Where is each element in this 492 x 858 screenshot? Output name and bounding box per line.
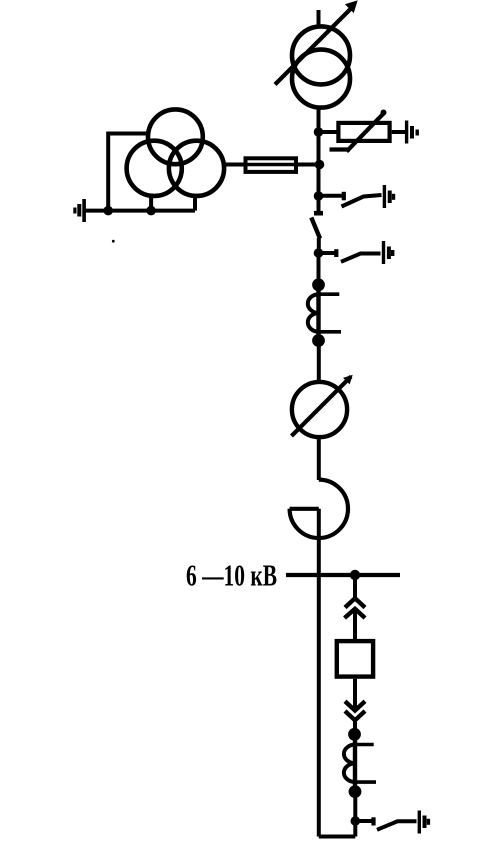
wire: reactor centre down through bus to bottom corner [317,509,321,837]
wire: disconnector to node D [317,238,321,253]
transformer T1 (two-winding, with regulation arrow) [275,2,357,108]
ground (left, transformer neutral) [73,199,86,222]
wire: L1 to breaker Q1 [317,341,321,382]
node: dot at riser / earth bus [103,206,113,216]
wire: earthing bus horizontal [85,209,196,213]
wire: main line B to C [317,165,321,197]
wire: fuse to node B [298,163,319,167]
grounding switch QSG3 (branch right) [355,817,416,830]
reactor LR (three-quarter arc) [290,480,348,538]
circuit breaker Q1 (circle with slash) [292,376,352,437]
wire: C to disconnector contact [317,196,321,212]
wire: T2 right LV winding down [193,198,197,211]
grounding switch QSG1 (branch right) [319,192,382,207]
bus 6-10 kV [286,573,400,577]
wire: L2 to node F [353,792,357,837]
winding L1 (two loops with taps to right) [308,285,341,341]
node: L1 lower terminal (heavy dot) [312,334,325,347]
speck (scan artifact) [112,240,115,243]
wire: chevron to winding L2 [353,720,357,734]
drawout contact (double chevron up) [345,598,366,618]
wire: T2 HV winding to fuse [226,163,244,167]
three-winding transformer T2 [127,109,224,195]
node F (junction dot, bottom earthing switch) [351,816,361,826]
disconnector QS1 (open blade in main line) [311,213,323,238]
wire: T2 left LV winding down [149,197,153,211]
ground (QSG3) [418,811,431,834]
drawout contact (double chevron down) [345,701,365,720]
ground (QSG2) [382,241,395,264]
node B (junction dot on main line) [315,160,325,170]
wire: bottom return link [319,835,356,839]
wire: T2 top winding to earthing riser [108,134,146,211]
ground (right of arrester) [405,121,419,144]
wire: box down to lower drawout contact [353,679,357,710]
node: L2 upper terminal (heavy dot) [348,728,361,741]
node: L2 lower terminal (heavy dot) [349,785,362,798]
wire: arrester to ground [392,130,406,134]
grounding switch QSG2 (branch right) [319,249,381,262]
node D (junction dot, second earthing switch) [314,248,324,258]
node: L1 upper terminal (heavy dot) [312,278,325,291]
apparatus box (switchgear unit) [337,641,373,677]
wire: breaker to reactor [317,439,321,480]
node: dot at left winding tap [146,206,156,216]
svg-text:6 —10 кВ: 6 —10 кВ [186,558,277,593]
wire: bus tap down to drawout contact [353,575,357,598]
ground (QSG1) [383,185,395,208]
wire: incoming overhead line stub at top [317,10,321,27]
surge arrester RV (nonlinear resistor) [330,110,390,152]
wire: T1 to node A [317,109,321,133]
wire: D to winding L1 [317,253,321,286]
node E (tap dot on bus) [350,570,360,580]
fuse F (rectangle with axial line) [244,158,299,172]
wire: branch to surge arrester [319,130,338,134]
node C (junction dot, first earthing switch) [314,191,324,201]
wire: main line A to B [317,132,321,165]
winding L2 (two loops with taps to right) [344,734,376,792]
node A (junction dot, arrester branch) [314,127,324,137]
wire: chevrons to apparatus box [353,609,357,640]
